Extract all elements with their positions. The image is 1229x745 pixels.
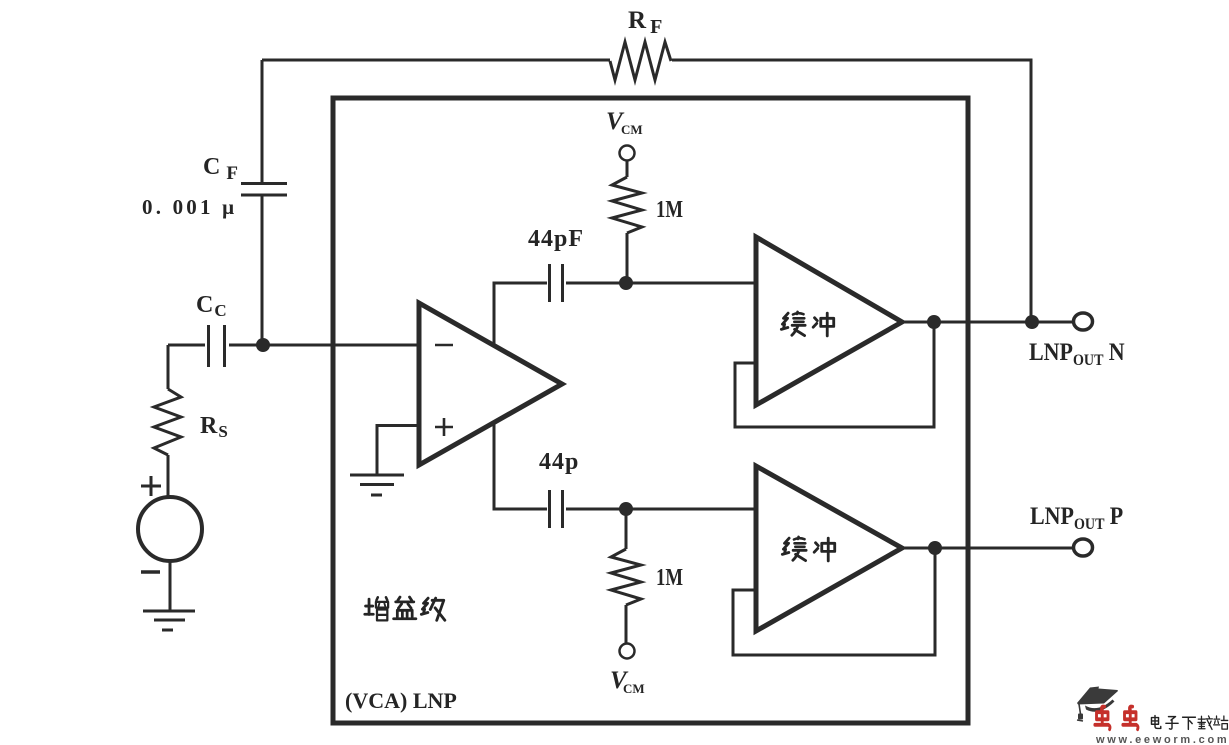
svg-text:CM: CM (623, 681, 645, 696)
svg-text:44pF: 44pF (528, 226, 584, 252)
svg-text:1M: 1M (656, 564, 683, 591)
svg-text:0. 001 μ: 0. 001 μ (142, 195, 237, 219)
svg-text:1M: 1M (656, 196, 683, 223)
svg-text:44p: 44p (539, 449, 579, 475)
svg-text:www.eeworm.com: www.eeworm.com (1095, 734, 1229, 745)
svg-text:(VCA) LNP: (VCA) LNP (345, 688, 457, 713)
svg-text:CM: CM (621, 122, 643, 137)
